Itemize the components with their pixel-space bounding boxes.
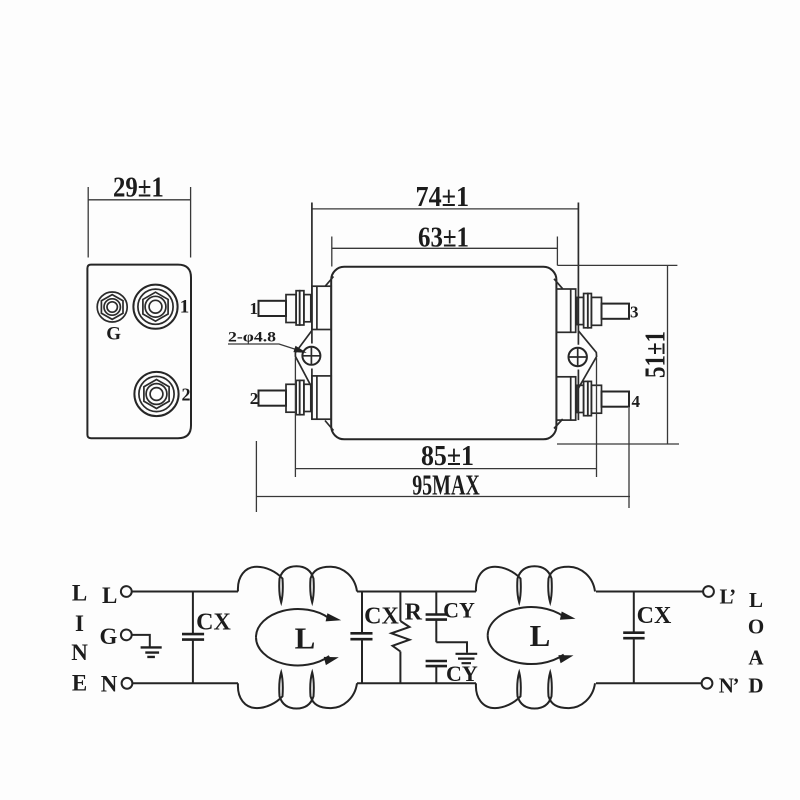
terminal 2 inner ring xyxy=(146,384,167,405)
leader arrowhead xyxy=(293,346,306,353)
svg-text:D: D xyxy=(748,674,763,698)
terminal 4 washer B xyxy=(584,381,588,415)
terminal 4 nut xyxy=(591,385,601,413)
capacitor CX1 bottom lead xyxy=(192,640,194,684)
right mounting strap upper segment (74±1 extension) xyxy=(577,203,579,345)
terminal 3 flange inner line xyxy=(570,289,572,332)
terminal 3 collar xyxy=(577,297,584,324)
svg-text:3: 3 xyxy=(630,303,639,322)
body-to-flange weld line bottom left xyxy=(325,421,334,431)
chassis ground symbol xyxy=(456,654,478,663)
svg-text:G: G xyxy=(100,624,118,649)
choke L2 flux arrow bottom head xyxy=(558,655,573,663)
terminal 2 pin xyxy=(259,391,287,406)
svg-text:CX: CX xyxy=(364,604,399,630)
wire G to ground xyxy=(132,635,150,647)
capacitor CX3 plates xyxy=(623,633,644,639)
wire choke L1 to choke L2 top xyxy=(357,591,476,593)
dimension 74±1 line xyxy=(312,208,579,210)
terminal 1 washer A xyxy=(296,291,300,325)
svg-text:2: 2 xyxy=(250,389,259,408)
svg-text:L’: L’ xyxy=(720,585,736,609)
choke L1 top winding xyxy=(238,566,357,602)
terminal 2 washer B xyxy=(300,380,304,414)
extension line left of 63±1 xyxy=(331,237,333,267)
51±1 top extension line xyxy=(557,264,677,266)
terminal 2 collar xyxy=(304,384,311,411)
choke L1 bottom winding xyxy=(238,672,357,708)
right mounting hole xyxy=(569,348,587,366)
svg-text:G: G xyxy=(106,324,121,345)
terminal 2 washer A xyxy=(296,380,300,414)
choke L2 top winding xyxy=(476,566,595,602)
svg-text:85±1: 85±1 xyxy=(421,440,474,472)
right mounting ear outline xyxy=(578,331,596,388)
extension line right of 29±1 xyxy=(190,187,192,258)
right mounting hole cross xyxy=(568,347,587,366)
terminal 1 hex nut xyxy=(143,292,168,321)
capacitor CY1 top lead xyxy=(435,592,437,615)
wire N to choke L1 xyxy=(132,682,238,684)
terminal G (side view) outer circle xyxy=(97,292,127,322)
terminal 3 washer A xyxy=(588,294,592,328)
choke L1 flux arrow bottom xyxy=(256,637,329,665)
capacitor CX3 top lead xyxy=(633,592,635,633)
terminal G inner ring xyxy=(104,299,120,315)
svg-text:R: R xyxy=(405,600,423,626)
svg-text:N: N xyxy=(101,671,118,696)
dimension 95MAX line xyxy=(256,496,630,498)
capacitor CX2 plates xyxy=(350,633,372,639)
95MAX right extension line xyxy=(628,408,630,508)
terminal 1 (side view) outer circle xyxy=(133,285,177,329)
svg-text:L: L xyxy=(749,588,763,612)
terminal 4 flange xyxy=(556,377,575,420)
wire choke L2 to N' xyxy=(596,682,702,684)
51±1 dimension line xyxy=(667,265,669,444)
terminal 3 pin xyxy=(602,304,630,319)
resistor R zigzag xyxy=(391,621,409,652)
85±1 right extension line xyxy=(596,358,598,477)
choke L1 flux arrow bottom head xyxy=(324,657,339,665)
terminal 2 flange inner line xyxy=(316,376,318,419)
svg-text:1: 1 xyxy=(249,299,258,318)
terminal 3 washer B xyxy=(584,294,588,328)
svg-text:51±1: 51±1 xyxy=(640,331,672,378)
choke L2 flux arrow top xyxy=(488,607,564,636)
terminal 2 hex nut xyxy=(144,380,169,409)
svg-text:2: 2 xyxy=(182,385,191,405)
capacitor CX3 bottom lead xyxy=(633,638,635,683)
svg-text:CY: CY xyxy=(443,598,475,623)
svg-text:O: O xyxy=(748,614,764,638)
terminal 2 flange xyxy=(312,376,331,419)
terminal 1 center hole xyxy=(149,300,162,313)
resistor R bottom lead xyxy=(399,652,401,684)
choke L2 flux arrow bottom xyxy=(488,636,564,664)
right mounting strap lower segment xyxy=(577,370,579,421)
svg-text:CX: CX xyxy=(637,603,672,629)
terminal 4 pin xyxy=(602,392,630,407)
choke L2 bottom winding xyxy=(476,672,595,708)
85±1 left extension line xyxy=(294,358,296,478)
wire L to choke L1 xyxy=(132,591,238,593)
choke L2 flux arrow top head xyxy=(560,612,576,620)
svg-text:N’: N’ xyxy=(719,674,739,698)
terminal 2 center hole xyxy=(150,388,163,401)
wire choke L2 to L' xyxy=(596,591,703,593)
terminal 4 flange inner line xyxy=(570,377,572,420)
ground symbol xyxy=(141,647,162,657)
capacitor CX2 bottom lead xyxy=(361,639,363,683)
terminal G center hole xyxy=(107,302,117,312)
extension line right of 63±1 xyxy=(556,237,558,266)
svg-text:2-φ4.8: 2-φ4.8 xyxy=(228,330,276,346)
terminal 1 second ring xyxy=(138,289,173,324)
terminal 1 collar xyxy=(304,295,311,322)
node N' terminal circle xyxy=(702,678,713,689)
body-to-flange weld line bottom right xyxy=(554,419,563,429)
terminal 1 washer B xyxy=(300,291,304,325)
terminal 2 second ring xyxy=(139,376,174,411)
terminal 1 flange inner line xyxy=(316,286,318,329)
filter body outline xyxy=(331,267,556,440)
terminal 4 collar xyxy=(577,385,584,412)
svg-text:I: I xyxy=(75,611,84,636)
node N terminal circle xyxy=(122,678,133,689)
svg-text:L: L xyxy=(295,621,316,656)
node G terminal circle xyxy=(121,630,132,641)
capacitor CY2 bottom lead xyxy=(435,666,437,683)
capacitor CX1 top lead xyxy=(192,592,194,635)
capacitor CY1 plates xyxy=(426,615,447,620)
svg-text:L: L xyxy=(102,583,117,608)
left mounting hole cross xyxy=(302,346,321,365)
dimension 63±1 line xyxy=(332,247,558,249)
capacitor CX2 top lead xyxy=(361,592,363,634)
left mounting strap upper segment (74±1 extension) xyxy=(311,203,313,344)
svg-text:CX: CX xyxy=(196,609,231,635)
terminal 3 nut xyxy=(591,297,601,325)
left mounting strap lower segment xyxy=(311,369,313,420)
node L' terminal circle xyxy=(703,586,714,597)
body-to-flange weld line top left xyxy=(325,277,334,287)
choke L1 flux arrow top xyxy=(256,609,329,637)
terminal 1 pin xyxy=(259,301,287,316)
95MAX left extension line xyxy=(255,441,257,512)
terminal 3 flange xyxy=(556,289,575,332)
capacitor CY2 plates xyxy=(426,661,447,666)
terminal 1 nut xyxy=(286,295,296,323)
terminal 2 (side view) outer circle xyxy=(134,372,178,416)
body-to-flange weld line top right xyxy=(554,279,563,289)
51±1 bottom extension line xyxy=(557,443,679,445)
choke L1 flux arrow top head xyxy=(326,613,342,621)
terminal 1 flange xyxy=(312,286,331,329)
node L terminal circle xyxy=(121,586,132,597)
wire CY midpoint xyxy=(436,620,467,653)
terminal 4 washer A xyxy=(588,381,592,415)
svg-text:A: A xyxy=(748,645,764,669)
left mounting hole xyxy=(302,347,320,365)
dimension 85±1 line xyxy=(295,468,596,470)
side view enclosure outline xyxy=(87,265,191,439)
svg-text:L: L xyxy=(72,581,87,606)
svg-text:1: 1 xyxy=(180,297,190,318)
wire choke L1 to choke L2 bottom xyxy=(357,682,476,684)
capacitor CX1 plates xyxy=(182,634,204,640)
terminal 2 nut xyxy=(286,384,296,412)
svg-text:N: N xyxy=(71,640,88,665)
svg-text:CY: CY xyxy=(446,661,478,686)
dimension 29±1 line xyxy=(88,199,190,201)
leader underline and arrow to hole xyxy=(228,344,303,352)
svg-text:4: 4 xyxy=(632,392,641,411)
terminal G hex nut xyxy=(101,295,123,320)
resistor R top lead xyxy=(399,592,401,622)
terminal 1 inner ring xyxy=(145,296,166,317)
svg-text:L: L xyxy=(530,618,551,653)
svg-text:29±1: 29±1 xyxy=(113,172,164,204)
extension line left of 29±1 xyxy=(87,187,89,258)
svg-text:E: E xyxy=(72,671,87,696)
left mounting ear outline xyxy=(295,331,312,388)
